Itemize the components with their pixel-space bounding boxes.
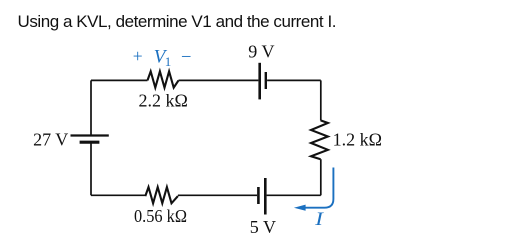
svg-text:−: − — [181, 47, 191, 67]
svg-text:0.56 kΩ: 0.56 kΩ — [134, 206, 187, 226]
svg-text:I: I — [314, 208, 324, 229]
svg-text:1: 1 — [165, 54, 172, 69]
svg-text:9 V: 9 V — [248, 41, 274, 61]
svg-text:2.2 kΩ: 2.2 kΩ — [139, 90, 188, 110]
svg-text:27 V: 27 V — [33, 130, 68, 150]
svg-text:5 V: 5 V — [250, 217, 276, 237]
svg-text:Using a KVL, determine V1 and: Using a KVL, determine V1 and the curren… — [18, 12, 337, 31]
svg-text:+: + — [133, 46, 143, 66]
svg-text:1.2 kΩ: 1.2 kΩ — [333, 130, 382, 150]
